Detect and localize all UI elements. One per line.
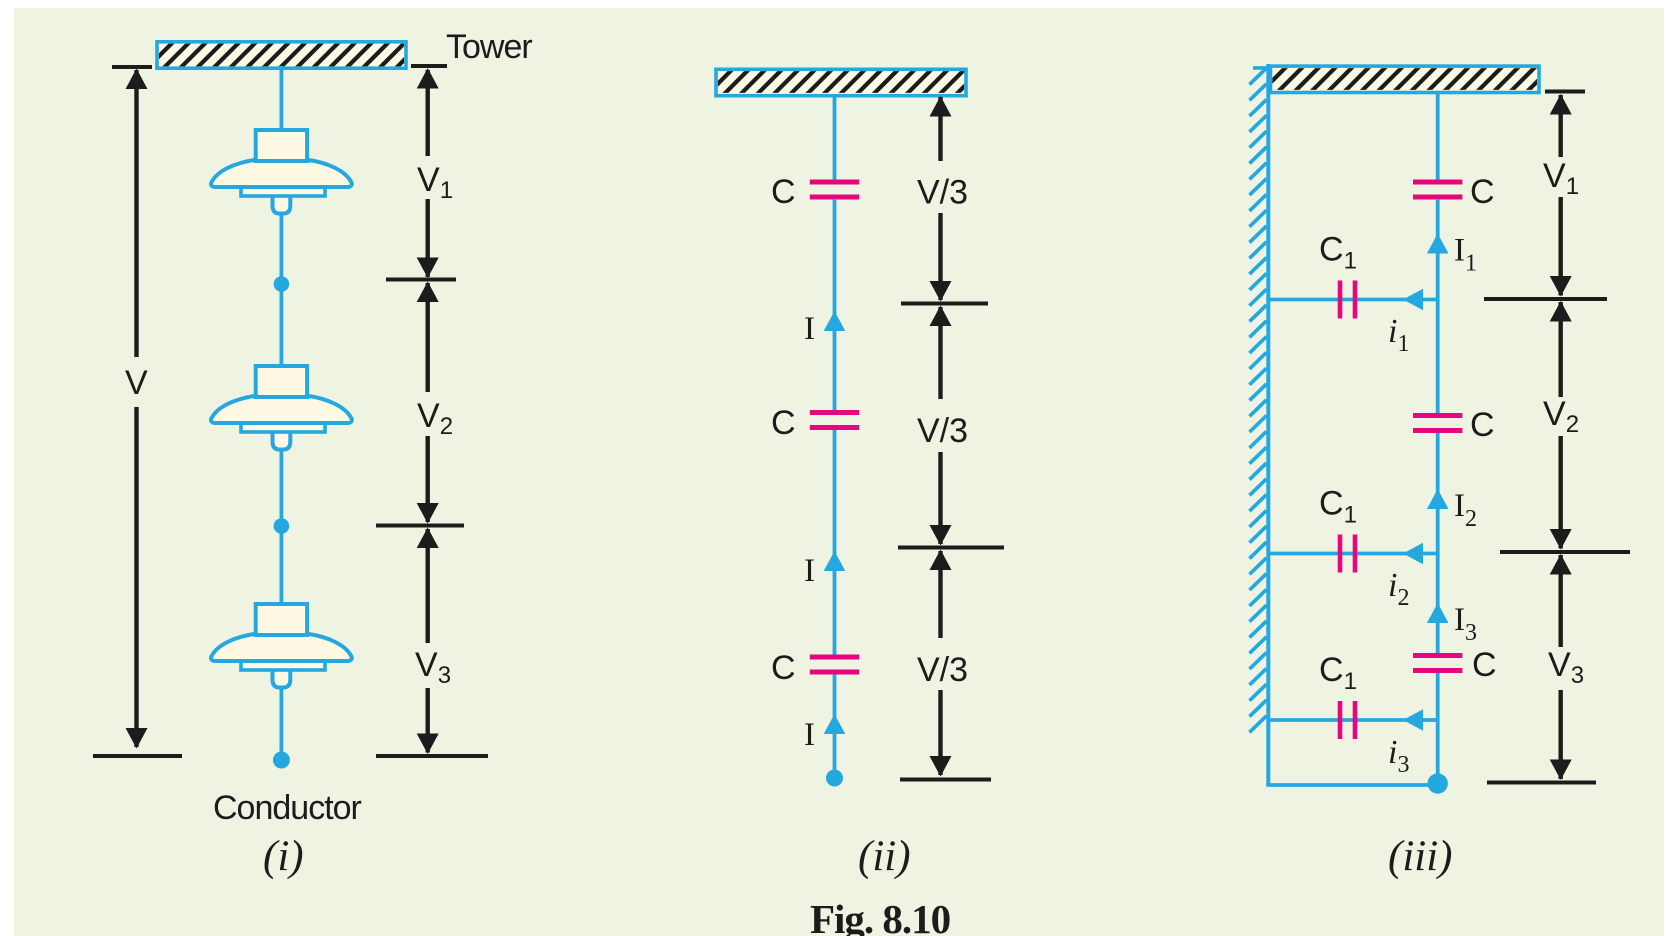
tick between V1 and V2 (iii) [1484,297,1607,301]
svg-text:V/3: V/3 [917,174,968,212]
svg-text:(ii): (ii) [858,833,911,880]
tick between V2 and V3 (iii) [1500,550,1630,554]
tick at tower level (iii) [1545,90,1585,94]
svg-text:(iii): (iii) [1388,833,1452,880]
shunt branch wire 2 (iii) [1268,552,1437,556]
link node dot between disc1 and disc2 [274,276,290,292]
bottom tick (ii) [900,778,991,782]
svg-text:C: C [1470,173,1495,211]
dimension line V (i) [93,69,182,757]
wire cap1 to cap2 (iii) [1436,199,1440,414]
shunt capacitor C1 branch 1 (iii) [1338,281,1358,319]
dimension line V/3 middle (ii) [930,306,952,546]
svg-text:C: C [771,649,796,687]
current arrow I lower (ii) [824,714,846,734]
svg-text:V/3: V/3 [917,412,968,450]
tower cross-arm bar (i) [128,40,424,71]
svg-text:V/3: V/3 [917,651,968,689]
tick at tower level left (i) [112,65,152,69]
wire bar to capacitor C1 top (iii) [1436,91,1440,180]
tower cross-arm bar (iii) [1243,64,1555,94]
tick 1 (ii) [901,302,988,306]
conductor junction dot (iii) [1428,773,1448,793]
svg-text:C: C [1472,646,1497,684]
insulator disc 1 [211,130,352,214]
current arrow I2 (iii) [1427,489,1449,509]
tower cross-arm bar (ii) [688,67,983,97]
conductor node dot [273,752,290,769]
wire between cap2 and cap3 (ii) [833,430,837,655]
bottom return wire (iii) [1266,783,1437,787]
svg-text:C: C [1470,406,1495,444]
tick 2 (ii) [898,546,1004,550]
capacitor C second (iii) [1413,413,1462,433]
capacitor C third (iii) [1413,653,1462,673]
svg-text:C: C [771,173,796,211]
tick between V1 and V2 (i) [386,278,456,282]
wire cap3 to conductor (ii) [833,675,837,778]
wire disc1 to disc2 [279,213,283,368]
shunt current arrow i2 head (iii) [1403,543,1423,565]
dimension line V1 (i) [417,68,439,278]
dimension line V2 (i) [417,282,439,524]
dimension line V3 (iii) [1550,554,1572,780]
svg-text:V: V [125,364,148,402]
shunt current arrow i1 head (iii) [1403,289,1423,311]
capacitor C bottom (ii) [810,655,859,675]
bottom tick (iii) [1487,781,1596,785]
current arrow I upper (ii) [824,311,846,331]
bottom tick (i) [376,754,488,758]
svg-text:Tower: Tower [446,28,532,66]
shunt branch wire 3 (iii) [1268,718,1437,722]
insulator disc 2 [211,366,352,450]
conductor node dot (ii) [826,770,843,787]
wire cap3 to conductor node (iii) [1436,673,1440,783]
svg-text:I: I [804,717,815,753]
shunt branch wire 1 (iii) [1268,298,1437,302]
tick between V2 and V3 (i) [376,524,464,528]
link node dot between disc2 and disc3 [274,518,290,534]
shunt current arrow i3 head (iii) [1403,709,1423,731]
svg-text:Conductor: Conductor [213,789,362,827]
tower strip hatching (iii) [1250,68,1267,732]
dimension line V3 (i) [417,528,439,755]
insulator disc 3 [211,604,352,688]
shunt capacitor C1 branch 2 (iii) [1338,535,1358,573]
wire disc3 to conductor [279,687,283,758]
wire bar to capacitor C top (ii) [833,94,837,180]
current arrow I3 (iii) [1427,603,1449,623]
tower vertical strip line (iii) [1266,64,1270,786]
shunt capacitor C1 branch 3 (iii) [1338,701,1358,739]
dimension line V/3 top (ii) [930,96,952,302]
capacitor C middle (ii) [810,410,859,430]
dimension line V1 (iii) [1550,94,1572,297]
dimension line V2 (iii) [1550,301,1572,550]
svg-text:Fig. 8.10: Fig. 8.10 [810,896,950,936]
dimension line V/3 bottom (ii) [930,550,952,777]
wire cap2 to cap3 (iii) [1436,433,1440,654]
current arrow I1 (iii) [1427,234,1449,254]
wire disc2 to disc3 [279,449,283,606]
svg-text:(i): (i) [263,833,304,880]
current arrow I middle (ii) [824,551,846,571]
svg-text:C: C [771,404,796,442]
capacitor C top (ii) [810,180,859,200]
svg-text:I: I [804,553,815,589]
tick at tower level right (i) [411,64,447,68]
wire between cap1 and cap2 (ii) [833,199,837,411]
wire tower to disc 1 [279,66,283,132]
capacitor C first (iii) [1413,180,1462,200]
svg-text:I: I [804,311,815,347]
